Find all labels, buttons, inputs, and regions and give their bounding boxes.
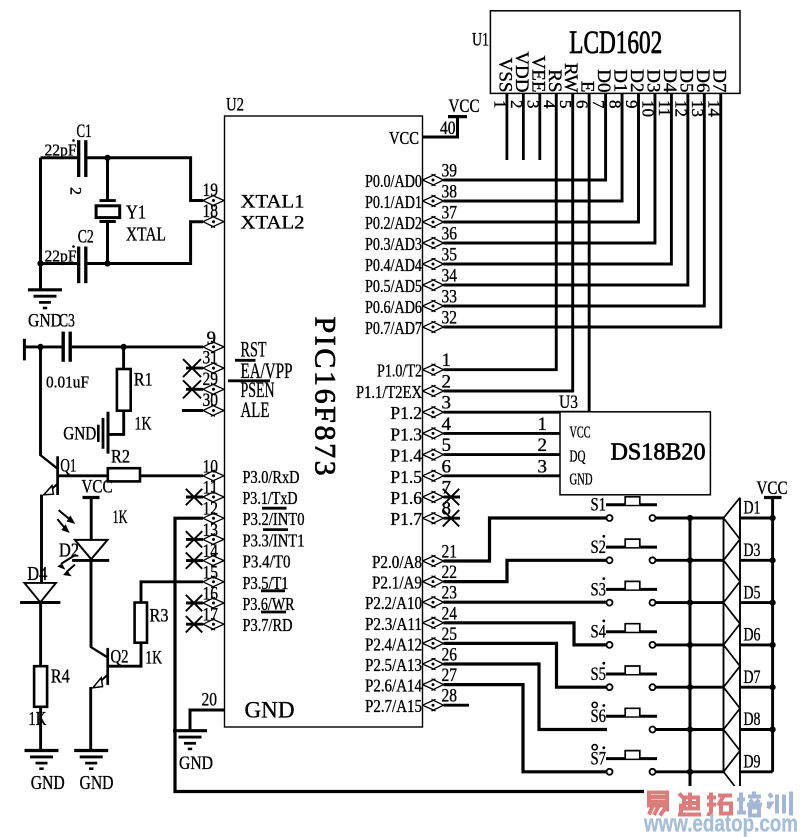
svg-text:10: 10 <box>203 456 219 477</box>
overline WR <box>261 589 285 592</box>
crystal Y1 top plate <box>100 199 116 202</box>
overline INT1 <box>263 528 288 531</box>
wire P1.0 to LCD pin 4 <box>444 93 557 369</box>
svg-text:28: 28 <box>442 686 458 707</box>
wire VCC to pin 40 <box>423 117 458 137</box>
transistor Q2 emitter arrow <box>93 678 103 688</box>
svg-text:P3.7/RD: P3.7/RD <box>243 615 293 635</box>
svg-text:Y1: Y1 <box>126 202 146 224</box>
node junction bus/S1 <box>687 515 693 521</box>
wire P2.4 to switch S5 <box>444 643 607 687</box>
svg-text:P3.2/INT0: P3.2/INT0 <box>243 509 305 529</box>
wire R2 to P3.0 pin 10 <box>140 474 203 477</box>
svg-text:C1: C1 <box>77 121 92 142</box>
svg-text:24: 24 <box>442 603 458 624</box>
wire C1 to XTAL1 pin 19 <box>88 158 204 201</box>
svg-text:P1.3: P1.3 <box>390 424 422 444</box>
ground symbol R4 <box>25 749 59 752</box>
svg-text:S3: S3 <box>591 579 607 600</box>
svg-text:XTAL: XTAL <box>126 224 166 246</box>
svg-text:5: 5 <box>442 435 452 456</box>
resistor R4 <box>34 666 47 707</box>
transistor Q1 base bar <box>56 456 59 495</box>
pin 16 P3.6/WR arrow <box>203 597 224 609</box>
svg-text:P0.5/AD5: P0.5/AD5 <box>365 276 422 296</box>
resistor R2 <box>108 468 140 481</box>
wire P2.3 to switch S4 <box>444 623 607 645</box>
wire P2.0 to switch S1 <box>444 518 607 561</box>
no-connect X on pin 11 <box>186 489 202 505</box>
svg-text:GND: GND <box>28 311 62 332</box>
wire VCC rail <box>771 498 774 772</box>
switch S1 actuator <box>625 497 640 505</box>
LED D2 light arrows (incoming) <box>57 510 71 529</box>
svg-text:13: 13 <box>203 520 219 541</box>
pin 3 P1.2 arrow <box>423 406 444 418</box>
wire C2 to XTAL2 pin 18 <box>88 222 204 264</box>
svg-text:S4: S4 <box>591 622 607 643</box>
no-connect X on P1.7 <box>443 510 459 526</box>
pin 29 PSEN arrow <box>203 384 224 396</box>
switch S6 bar <box>606 715 657 718</box>
svg-text:Q2: Q2 <box>111 647 129 668</box>
pin 7 P1.6 arrow <box>423 491 444 503</box>
switch S2 left contact <box>607 557 613 563</box>
pin 18 XTAL2 arrow <box>203 216 224 228</box>
wire pin 14 stub (no connect) <box>186 559 203 562</box>
wire LED D9 to VCC rail <box>740 770 773 773</box>
svg-text:R1: R1 <box>134 370 153 391</box>
switch S3 label dot <box>602 577 605 580</box>
pin 34 P0.5/AD5 arrow <box>423 279 444 291</box>
pin 9 RST arrow <box>203 341 224 353</box>
transistor Q2 collector lead <box>91 647 108 658</box>
switch S3 bar <box>606 588 657 591</box>
switch S7 left contact <box>607 769 613 775</box>
switch S4 label dot <box>602 620 605 623</box>
pin 24 P2.3/A11 arrow <box>423 617 444 629</box>
svg-text:D1: D1 <box>744 498 761 519</box>
wire C3 left lead <box>24 345 62 348</box>
svg-text:P0.0/AD0: P0.0/AD0 <box>365 171 422 191</box>
svg-text:17: 17 <box>203 605 219 626</box>
LED chain anode rail <box>723 518 725 772</box>
svg-text:D8: D8 <box>744 709 761 730</box>
wire P1.4 to DS18B20 pin 2 <box>444 453 561 456</box>
capacitor C2 plates <box>77 247 80 284</box>
wire P2.5 to switch S6 <box>444 664 608 730</box>
svg-text:33: 33 <box>442 287 458 308</box>
pin 5 P1.4 arrow <box>423 449 444 461</box>
svg-text:2: 2 <box>67 187 84 195</box>
switch S2 label dot <box>602 535 605 538</box>
svg-text:1: 1 <box>538 414 548 435</box>
crystal Y1 body <box>96 206 120 218</box>
pin 39 P0.0/AD0 arrow <box>423 174 444 186</box>
svg-text:P1.2: P1.2 <box>390 403 422 423</box>
switch S3 right contact <box>650 600 656 606</box>
sensor U3 DS18B20 body <box>560 412 710 495</box>
svg-text:38: 38 <box>442 182 458 203</box>
svg-text:Q1: Q1 <box>60 456 76 477</box>
svg-text:1K: 1K <box>135 414 152 435</box>
pin 36 P0.3/AD3 arrow <box>423 237 444 249</box>
switch S1 bar <box>606 503 657 506</box>
svg-text:6: 6 <box>442 456 452 477</box>
wire pin 31 stub <box>186 367 203 370</box>
pin 38 P0.1/AD1 arrow <box>423 195 444 207</box>
node junction VCC rail/D7 <box>770 684 776 690</box>
svg-text:S1: S1 <box>591 495 607 516</box>
svg-text:36: 36 <box>442 224 458 245</box>
svg-text:DS18B20: DS18B20 <box>611 440 706 466</box>
power symbol VCC (chip pin 40) <box>448 115 467 118</box>
LED chain cathode rail <box>739 498 741 793</box>
wire pin 13 stub (no connect) <box>186 538 203 541</box>
node junction C1/Y1 <box>104 155 110 161</box>
svg-text:P1.4: P1.4 <box>390 446 422 466</box>
svg-text:29: 29 <box>203 369 219 390</box>
switch S4 right contact <box>650 642 656 648</box>
svg-text:www.edatop.com: www.edatop.com <box>643 811 798 837</box>
switch S5 bar <box>606 673 657 676</box>
switch S3 left contact <box>607 600 613 606</box>
pin 11 P3.1/TxD arrow <box>203 491 224 503</box>
svg-text:4: 4 <box>442 414 452 435</box>
capacitor C3 left terminal bar <box>23 339 26 361</box>
switch S6 artifact circle <box>592 702 597 707</box>
wire P2.6 to switch S7 <box>444 685 607 772</box>
pin 4 P1.3 arrow <box>423 428 444 440</box>
pin 21 P2.0/A8 arrow <box>423 555 444 567</box>
node junction bus/S5 <box>687 684 693 690</box>
wire pin 30 stub <box>182 409 203 412</box>
wire P1.1 to LCD pin 5 <box>444 93 573 391</box>
pin 13 P3.3/INT1 arrow <box>203 534 224 546</box>
wire P2.1 to switch S2 <box>444 560 607 581</box>
wire P1.2 to LCD pin 6 <box>444 93 590 412</box>
transistor Q1 collector lead <box>40 454 58 468</box>
pin 1 P1.0/T2 arrow <box>423 364 444 376</box>
LCD module U1 LCD1602 body <box>490 11 740 94</box>
switch S7 label dot <box>602 746 605 749</box>
svg-text:GND: GND <box>63 424 96 445</box>
pin 30 ALE arrow <box>203 405 224 417</box>
node junction RST/R1 <box>121 344 127 350</box>
transistor Q1 emitter lead <box>47 484 58 494</box>
wire S1 to common bus <box>656 517 724 520</box>
ground symbol R1 (rotated) <box>107 412 110 454</box>
node junction VCC rail/D6 <box>770 642 776 648</box>
wire R1 to ground <box>110 411 124 435</box>
svg-text:GND: GND <box>80 772 114 794</box>
node junction C2/Y1 <box>104 260 110 266</box>
wire left rail to C1 <box>41 156 78 159</box>
svg-text:P3.4/T0: P3.4/T0 <box>243 552 291 572</box>
crystal Y1 bottom plate <box>100 220 116 223</box>
wire S3 to common bus <box>656 601 724 604</box>
wire S4 to common bus <box>656 643 724 646</box>
wire S2 to common bus <box>656 559 724 562</box>
overline RD <box>261 611 286 614</box>
wire Q1 base to R2 <box>58 474 108 477</box>
LED D4 triangle <box>24 583 56 602</box>
ground symbol at pin 20 <box>173 729 207 732</box>
svg-text:23: 23 <box>442 583 458 604</box>
svg-text:S7: S7 <box>591 749 607 770</box>
transistor Q2 emitter lead <box>97 675 108 685</box>
node junction left rail / ground <box>37 260 43 266</box>
wire P1.5 to DS18B20 pin 3 <box>444 474 561 477</box>
svg-text:VCC: VCC <box>449 96 480 117</box>
svg-text:VCC: VCC <box>757 478 788 499</box>
svg-text:S5: S5 <box>591 664 607 685</box>
svg-text:D6: D6 <box>744 625 761 646</box>
svg-text:GND: GND <box>245 698 295 724</box>
IC U2 PIC16F873 body <box>225 116 423 727</box>
wire R3 to Q2 base <box>108 643 141 667</box>
switch S3 actuator <box>625 581 640 589</box>
crystal Y1 bottom lead <box>106 222 109 264</box>
svg-text:D4: D4 <box>27 563 47 585</box>
resistor R3 top wire <box>141 582 203 603</box>
pin 27 P2.6/A14 arrow <box>423 679 444 691</box>
capacitor C3 plates <box>62 332 65 362</box>
svg-text:D7: D7 <box>708 69 729 92</box>
pin 35 P0.4/AD4 arrow <box>423 258 444 270</box>
switch S2 actuator <box>625 539 640 547</box>
pin 33 P0.6/AD6 arrow <box>423 300 444 312</box>
node junction VCC rail/D8 <box>770 726 776 732</box>
transistor Q1 emitter arrow <box>44 486 54 495</box>
ground symbol crystal <box>28 288 62 291</box>
svg-text:P0.1/AD1: P0.1/AD1 <box>365 192 422 212</box>
switch S5 label dot <box>602 662 605 665</box>
LED D2 triangle <box>75 540 108 559</box>
wire D2 to Q2 <box>90 560 93 647</box>
switch S1 right contact <box>650 515 656 521</box>
svg-text:XTAL2: XTAL2 <box>241 213 305 234</box>
svg-text:3: 3 <box>538 456 548 477</box>
wire C3 to RST pin 9 <box>72 345 203 348</box>
svg-text:1K: 1K <box>145 648 162 669</box>
pin 25 P2.4/A12 arrow <box>423 638 444 650</box>
svg-text:D7: D7 <box>744 667 761 688</box>
switch S6 actuator <box>625 708 640 716</box>
resistor R1 top lead <box>122 347 125 369</box>
pin 31 EA/VPP arrow <box>203 362 224 374</box>
node junction VCC rail/D1 <box>770 515 776 521</box>
svg-text:39: 39 <box>442 161 458 182</box>
pin 14 P3.4/T0 arrow <box>203 555 224 567</box>
switch S1 left contact <box>607 515 613 521</box>
svg-text:16: 16 <box>203 584 219 605</box>
wire D4 to R4 <box>39 603 42 667</box>
no-connect X on pin 29 <box>183 380 201 398</box>
svg-text:S6: S6 <box>591 706 607 727</box>
no-connect X on pin 17 <box>186 616 202 632</box>
svg-text:32: 32 <box>442 308 458 329</box>
wire LCD pin 2 stub <box>522 93 525 160</box>
wire Q1 emitter down to D4 <box>40 495 43 583</box>
svg-text:0.01uF: 0.01uF <box>46 373 89 392</box>
svg-text:34: 34 <box>442 266 458 287</box>
wire P1.6 stub (no connect) <box>444 496 461 499</box>
svg-text:GND: GND <box>31 772 65 794</box>
pin 19 XTAL1 arrow <box>203 195 224 207</box>
pin 17 P3.7/RD arrow <box>203 618 224 630</box>
svg-text:VCC: VCC <box>82 477 113 498</box>
wire pin 11 stub (no connect) <box>186 496 203 499</box>
svg-text:1K: 1K <box>28 708 46 730</box>
svg-text:15: 15 <box>203 562 219 583</box>
pin 6 P1.5 arrow <box>423 470 444 482</box>
svg-text:P1.5: P1.5 <box>390 467 422 487</box>
wire rail to ground <box>39 264 42 290</box>
pin 15 P3.5/T1 arrow <box>203 576 224 588</box>
svg-text:P2.0/A8: P2.0/A8 <box>372 552 422 572</box>
wire P2.7 stub (no connect) <box>444 704 470 707</box>
svg-text:R4: R4 <box>51 666 70 688</box>
svg-text:9: 9 <box>207 328 217 349</box>
switch S6 right contact <box>650 727 656 733</box>
switch S4 bar <box>606 630 657 633</box>
capacitor C1 plates <box>77 140 80 177</box>
switch S6 label dot <box>602 704 605 707</box>
wire LED D8 to VCC rail <box>740 728 773 731</box>
svg-text:VCC: VCC <box>570 423 591 442</box>
wire pin 20 to ground <box>190 710 225 731</box>
svg-text:P0.2/AD2: P0.2/AD2 <box>365 213 422 233</box>
svg-text:S2: S2 <box>591 537 607 558</box>
node junction VCC rail/D5 <box>770 600 776 606</box>
wire RST node down to Q1 <box>39 347 42 455</box>
svg-text:31: 31 <box>203 348 219 369</box>
svg-text:P0.4/AD4: P0.4/AD4 <box>365 255 422 275</box>
LED chain zigzag diode edges <box>724 498 741 793</box>
svg-text:P3.0/RxD: P3.0/RxD <box>243 467 300 487</box>
node junction bus/S2 <box>687 557 693 563</box>
wire S6 to common bus <box>656 728 724 731</box>
svg-text:P2.1/A9: P2.1/A9 <box>372 573 422 593</box>
svg-text:R3: R3 <box>150 606 169 627</box>
pin 28 P2.7/A15 arrow <box>423 699 444 711</box>
svg-text:22: 22 <box>442 562 458 583</box>
resistor R3 <box>135 603 147 643</box>
wire P0.2 to LCD D2 <box>444 93 639 222</box>
svg-text:1K: 1K <box>113 507 128 528</box>
node junction bus/S3 <box>687 600 693 606</box>
svg-text:U1: U1 <box>472 30 489 51</box>
wire P0.0 to LCD D0 <box>444 93 606 180</box>
pin 32 P0.7/AD7 arrow <box>423 321 444 333</box>
overline PSEN <box>228 379 270 382</box>
LED D2 cathode bar <box>72 559 109 562</box>
svg-text:P1.1/T2EX: P1.1/T2EX <box>356 382 422 402</box>
svg-text:20: 20 <box>202 690 218 711</box>
svg-text:R2: R2 <box>111 447 130 468</box>
node junction bus/S6 <box>687 726 693 732</box>
wire LED D1 to VCC rail <box>740 517 773 520</box>
svg-text:1: 1 <box>442 350 452 371</box>
svg-text:21: 21 <box>442 542 458 563</box>
svg-text:19: 19 <box>203 180 219 201</box>
node junction RST/left branch <box>37 344 43 350</box>
svg-text:VCC: VCC <box>389 128 419 148</box>
svg-text:U3: U3 <box>559 392 578 413</box>
svg-text:P0.3/AD3: P0.3/AD3 <box>365 234 422 254</box>
switch S7 bar <box>606 757 657 760</box>
no-connect X on pin 13 <box>186 531 202 547</box>
overline INT0 <box>262 507 287 510</box>
pin 26 P2.5/A13 arrow <box>423 658 444 670</box>
wire P0.6 to LCD D6 <box>444 93 705 306</box>
pin 23 P2.2/A10 arrow <box>423 596 444 608</box>
pin 22 P2.1/A9 arrow <box>423 576 444 588</box>
wire LED D3 to VCC rail <box>740 559 773 562</box>
svg-text:12: 12 <box>203 499 219 520</box>
svg-text:P0.6/AD6: P0.6/AD6 <box>365 297 422 317</box>
pin 2 P1.1/T2EX arrow <box>423 385 444 397</box>
wire P1.7 stub (no connect) <box>444 517 461 520</box>
svg-text:C3: C3 <box>59 311 75 332</box>
wire VCC to D2 <box>90 498 93 540</box>
no-connect X on pin 14 <box>186 552 202 568</box>
svg-text:P2.5/A13: P2.5/A13 <box>365 655 422 675</box>
wire P0.3 to LCD D3 <box>444 93 655 243</box>
svg-text:2: 2 <box>538 435 548 456</box>
svg-text:LCD1602: LCD1602 <box>569 25 662 61</box>
node junction VCC rail/D3 <box>770 557 776 563</box>
wire pin 16 stub (no connect) <box>186 602 203 605</box>
svg-text:26: 26 <box>442 645 458 666</box>
svg-text:18: 18 <box>203 201 219 222</box>
svg-text:P3.3/INT1: P3.3/INT1 <box>243 530 305 550</box>
wire R4 to ground <box>39 707 42 751</box>
svg-text:XTAL1: XTAL1 <box>241 192 305 213</box>
overline EA <box>235 359 256 362</box>
svg-text:P1.6: P1.6 <box>390 488 422 508</box>
svg-text:D9: D9 <box>744 752 761 773</box>
switch S5 right contact <box>650 684 656 690</box>
pin 8 P1.7 arrow <box>423 512 444 524</box>
wire P2.2 to switch S3 <box>444 601 607 604</box>
resistor R1 <box>117 369 131 411</box>
switch S7 right contact <box>650 769 656 775</box>
wire LCD pin 3 stub <box>538 93 541 160</box>
switch S2 bar <box>606 546 657 549</box>
wire LED D6 to VCC rail <box>740 643 773 646</box>
wire P1.3 to DS18B20 pin 1 <box>444 432 561 435</box>
svg-text:27: 27 <box>442 665 458 686</box>
watermark chinese text <box>647 793 669 816</box>
watermark background <box>644 786 800 837</box>
svg-text:P2.2/A10: P2.2/A10 <box>365 593 422 613</box>
pin 10 P3.0/RxD arrow <box>203 470 224 482</box>
svg-text:30: 30 <box>203 390 219 411</box>
no-connect X on pin 31 <box>183 359 201 377</box>
wire LED D5 to VCC rail <box>740 601 773 604</box>
pin 12 P3.2/INT0 arrow <box>203 512 224 524</box>
svg-text:ALE: ALE <box>241 397 270 422</box>
switch S7 actuator <box>625 751 640 759</box>
svg-text:3: 3 <box>442 393 452 414</box>
switch S2 right contact <box>650 557 656 563</box>
switch S4 actuator <box>625 624 640 632</box>
svg-text:14: 14 <box>203 541 219 562</box>
node junction bus/S7 <box>687 769 693 775</box>
wire left rail to C2 <box>41 262 78 265</box>
